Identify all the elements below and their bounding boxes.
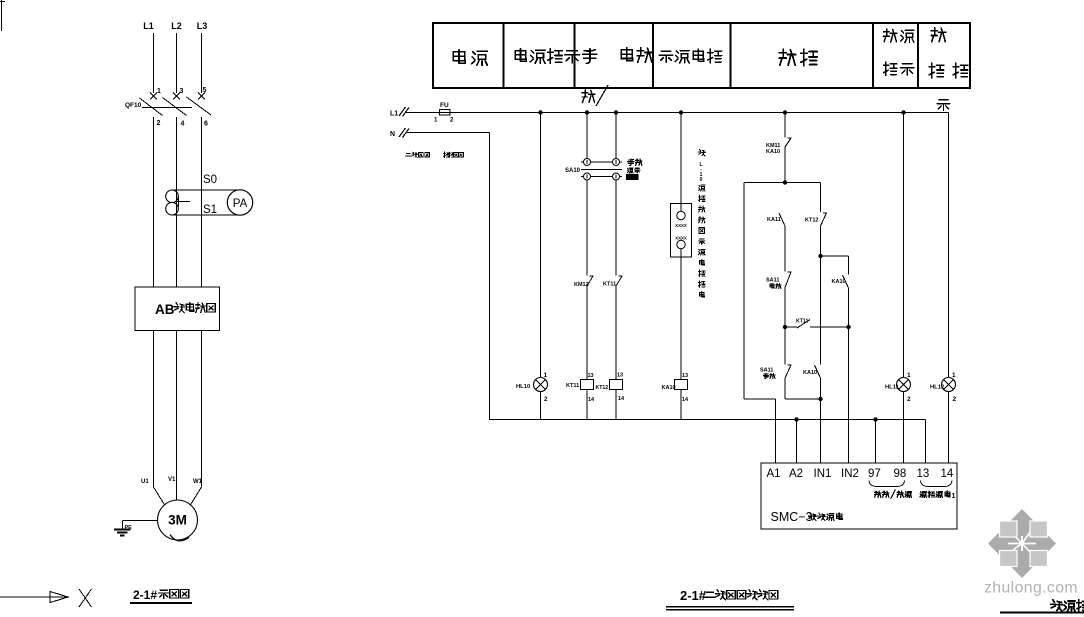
ammeter PA xyxy=(227,190,252,215)
svg-text:KA10: KA10 xyxy=(803,370,817,376)
coil KA10 xyxy=(675,380,688,390)
svg-text:L1: L1 xyxy=(390,111,398,118)
arrow xyxy=(0,596,52,598)
wire 97 xyxy=(875,420,877,464)
svg-text:97: 97 xyxy=(868,468,881,480)
breaker QF10 xyxy=(150,93,157,100)
junction A2 xyxy=(794,417,798,421)
wire to IN1 xyxy=(820,399,822,463)
branch to KA10c xyxy=(821,255,849,257)
wire L3 down xyxy=(201,33,203,93)
svg-text:1: 1 xyxy=(157,88,161,95)
svg-text:A1: A1 xyxy=(767,468,781,480)
svg-text:SA10: SA10 xyxy=(565,168,581,174)
svg-text:KA11: KA11 xyxy=(767,217,781,223)
wire to IN2 xyxy=(848,327,850,463)
wire L2 down xyxy=(176,33,178,93)
svg-text:KT11: KT11 xyxy=(566,383,579,389)
svg-text:KA10: KA10 xyxy=(766,149,780,155)
svg-text:XXXX: XXXX xyxy=(675,223,687,228)
selector SA10 xyxy=(586,113,588,159)
breaker linkage xyxy=(142,107,192,109)
svg-text:SA11: SA11 xyxy=(760,368,773,374)
border remnant top-left xyxy=(1,0,3,31)
svg-text:2: 2 xyxy=(157,120,161,127)
soft starter box xyxy=(135,287,220,331)
svg-text:1: 1 xyxy=(434,118,438,124)
svg-text:13: 13 xyxy=(682,373,688,379)
svg-text:N: N xyxy=(390,131,395,138)
lamp column HL12 xyxy=(948,113,950,378)
svg-text:V1: V1 xyxy=(168,477,176,483)
horizontal contact KT11b xyxy=(785,326,797,328)
svg-text:2: 2 xyxy=(450,118,454,124)
svg-text:KT11: KT11 xyxy=(796,319,809,325)
cell fault-ind xyxy=(883,29,897,42)
svg-text:14: 14 xyxy=(618,396,625,402)
cell run xyxy=(779,49,796,65)
svg-text:1: 1 xyxy=(952,493,956,500)
wrapped dong/ xyxy=(582,90,595,103)
wire L1 down xyxy=(153,33,155,93)
wire A2 xyxy=(796,420,798,464)
junctions top bus xyxy=(538,110,542,114)
hand char xyxy=(583,49,597,64)
bottom right line xyxy=(1000,612,1084,614)
contact SA11 auto xyxy=(785,272,791,288)
svg-text:AB: AB xyxy=(155,302,175,317)
fuse FU xyxy=(440,110,451,116)
contact KM12 xyxy=(587,276,593,286)
float switch column xyxy=(680,113,682,212)
svg-text:KM12: KM12 xyxy=(574,282,589,288)
svg-text:FU: FU xyxy=(440,102,449,109)
header table xyxy=(433,23,970,88)
contact KA11 xyxy=(779,213,785,226)
svg-text:W1: W1 xyxy=(193,479,203,485)
svg-text:zhulong.com: zhulong.com xyxy=(984,580,1078,597)
vertical note text xyxy=(698,149,705,156)
svg-text:HL12: HL12 xyxy=(930,385,944,391)
wire phase C xyxy=(201,117,203,287)
contact KA10b xyxy=(815,365,821,378)
svg-text:14: 14 xyxy=(682,397,689,403)
svg-text:KT12: KT12 xyxy=(805,218,818,224)
contact SA11 manual xyxy=(784,327,786,365)
svg-text:IN1: IN1 xyxy=(814,468,832,480)
cell pump-auto xyxy=(659,51,673,63)
svg-text:2: 2 xyxy=(953,396,957,403)
junction right xyxy=(846,325,850,329)
wire W xyxy=(201,331,203,488)
contact KM11/KA10 top xyxy=(784,113,786,138)
svg-text:2-1#: 2-1# xyxy=(133,588,157,602)
svg-text:QF10: QF10 xyxy=(125,102,142,109)
brace overload xyxy=(869,481,905,487)
cell power xyxy=(453,50,465,64)
svg-text:KT12: KT12 xyxy=(596,385,609,391)
junction xyxy=(783,325,787,329)
svg-text:14: 14 xyxy=(588,397,595,403)
wire U xyxy=(153,331,155,488)
X mark xyxy=(79,589,92,607)
breaker blade 3 xyxy=(187,97,212,115)
svg-text:2: 2 xyxy=(544,396,548,403)
cell run-ind xyxy=(931,28,946,42)
svg-text:IN2: IN2 xyxy=(841,468,859,480)
ground xyxy=(114,529,131,531)
svg-text:L1: L1 xyxy=(143,21,154,31)
svg-text:L2: L2 xyxy=(171,21,182,31)
svg-text:2-1#: 2-1# xyxy=(680,588,707,603)
label circuit names xyxy=(405,153,411,156)
svg-text:13: 13 xyxy=(588,373,594,379)
svg-text:S0: S0 xyxy=(203,174,217,186)
cell power-ind xyxy=(515,49,526,62)
svg-text:4: 4 xyxy=(181,121,185,128)
brace aux contact xyxy=(921,481,953,487)
breaker blade 1 xyxy=(140,98,163,116)
svg-text:U1: U1 xyxy=(141,479,149,485)
coil KT11 xyxy=(581,380,594,390)
right branch KT12 xyxy=(820,183,822,213)
top bus xyxy=(406,112,949,114)
lamp column HL10 xyxy=(540,113,542,378)
svg-text:KT11: KT11 xyxy=(603,282,616,288)
svg-text:HL10: HL10 xyxy=(516,384,530,390)
contact KT11 xyxy=(616,276,622,286)
svg-text:SA11: SA11 xyxy=(766,278,779,284)
svg-text:PE: PE xyxy=(125,525,133,531)
svg-text:3: 3 xyxy=(180,88,184,95)
cell auto xyxy=(621,48,632,61)
svg-text:5: 5 xyxy=(203,87,207,94)
partial text bottom right xyxy=(1051,600,1063,611)
coil KT12 xyxy=(610,380,623,390)
svg-text:13: 13 xyxy=(617,373,623,379)
svg-text:6: 6 xyxy=(204,121,208,128)
wire V xyxy=(176,331,178,501)
svg-text:1: 1 xyxy=(544,372,548,379)
wire left leg to A1 xyxy=(743,183,745,400)
N wire xyxy=(407,132,490,134)
wire PE xyxy=(123,520,158,522)
svg-text:S1: S1 xyxy=(203,204,217,216)
svg-text:1: 1 xyxy=(907,372,911,379)
svg-text:2: 2 xyxy=(907,396,911,403)
junction 97 xyxy=(873,417,877,421)
svg-text:13: 13 xyxy=(917,468,930,480)
svg-text:0: 0 xyxy=(700,177,703,183)
svg-text:A2: A2 xyxy=(789,468,803,480)
svg-text:KA10: KA10 xyxy=(662,385,676,391)
wire phase A xyxy=(153,117,155,287)
SMC-3 terminal box xyxy=(761,463,957,529)
svg-text:L3: L3 xyxy=(197,21,208,31)
svg-text:1: 1 xyxy=(952,372,956,379)
watermark logo xyxy=(988,509,1056,578)
CT loop with ammeter xyxy=(172,189,240,191)
lamp column HL11 xyxy=(903,113,905,378)
wire to 13 xyxy=(925,420,927,464)
svg-text:KA10: KA10 xyxy=(832,279,846,285)
svg-text:SMC−3: SMC−3 xyxy=(771,510,813,524)
svg-text:PA: PA xyxy=(233,198,248,210)
motor M xyxy=(158,500,198,540)
svg-text:HL11: HL11 xyxy=(885,385,900,391)
svg-text:XXXX: XXXX xyxy=(675,236,687,241)
bottom bus xyxy=(490,419,926,421)
wire phase B xyxy=(176,117,178,287)
svg-text:14: 14 xyxy=(941,468,954,480)
group box top xyxy=(744,182,821,184)
breaker blade 2 xyxy=(163,98,187,116)
svg-text:98: 98 xyxy=(894,468,907,480)
overflow shi xyxy=(937,100,950,111)
svg-text:3M: 3M xyxy=(168,513,187,528)
